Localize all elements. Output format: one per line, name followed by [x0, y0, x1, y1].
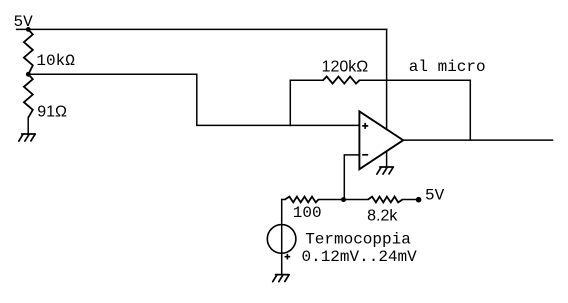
wire feedback horizontal left: [290, 79, 323, 81]
node 5V top junction: [26, 27, 31, 32]
node bottom 5V terminal: [416, 197, 422, 203]
wire divider mid to plus input: [28, 74, 359, 125]
wire bottom rail left: [282, 199, 285, 201]
resistor 10kOhm: [24, 30, 33, 75]
op-amp U1: [359, 111, 403, 169]
node bottom minus junction: [341, 197, 346, 202]
wire bottom rail right: [403, 199, 419, 201]
wire bottom rail mid: [319, 199, 369, 201]
svg-text:al micro: al micro: [409, 58, 486, 76]
svg-text:120kΩ: 120kΩ: [322, 58, 369, 75]
svg-text:10kΩ: 10kΩ: [36, 52, 75, 70]
node divider mid junction: [26, 72, 31, 77]
wire feedback horizontal right: [359, 79, 470, 81]
ground (divider): [19, 134, 36, 141]
wire op-amp V- stub: [386, 151, 388, 167]
resistor 100: [285, 197, 319, 203]
svg-text:0.12mV..24mV: 0.12mV..24mV: [302, 248, 418, 266]
wire top 5V rail: [17, 28, 387, 30]
svg-text:5V: 5V: [425, 187, 445, 205]
ground (source): [273, 275, 290, 282]
wire 91 ohm to ground: [27, 117, 29, 133]
wire output: [403, 139, 552, 141]
resistor 120kOhm: [323, 77, 359, 84]
svg-text:100: 100: [293, 204, 322, 222]
voltage source (thermocouple): [267, 225, 296, 260]
wire op-amp V+ drop: [386, 29, 388, 129]
svg-text:91Ω: 91Ω: [37, 103, 67, 120]
wire feedback left drop: [289, 80, 291, 125]
wire source vertical: [281, 200, 283, 275]
svg-text:Termocoppia: Termocoppia: [305, 231, 411, 249]
svg-text:8.2k: 8.2k: [367, 208, 398, 225]
svg-text:5V: 5V: [14, 13, 34, 31]
resistor 8.2k: [368, 197, 403, 203]
wire feedback right drop: [469, 80, 471, 140]
wire minus input: [344, 155, 359, 200]
resistor 91Ohm: [24, 74, 33, 117]
ground (op-amp): [377, 167, 394, 174]
